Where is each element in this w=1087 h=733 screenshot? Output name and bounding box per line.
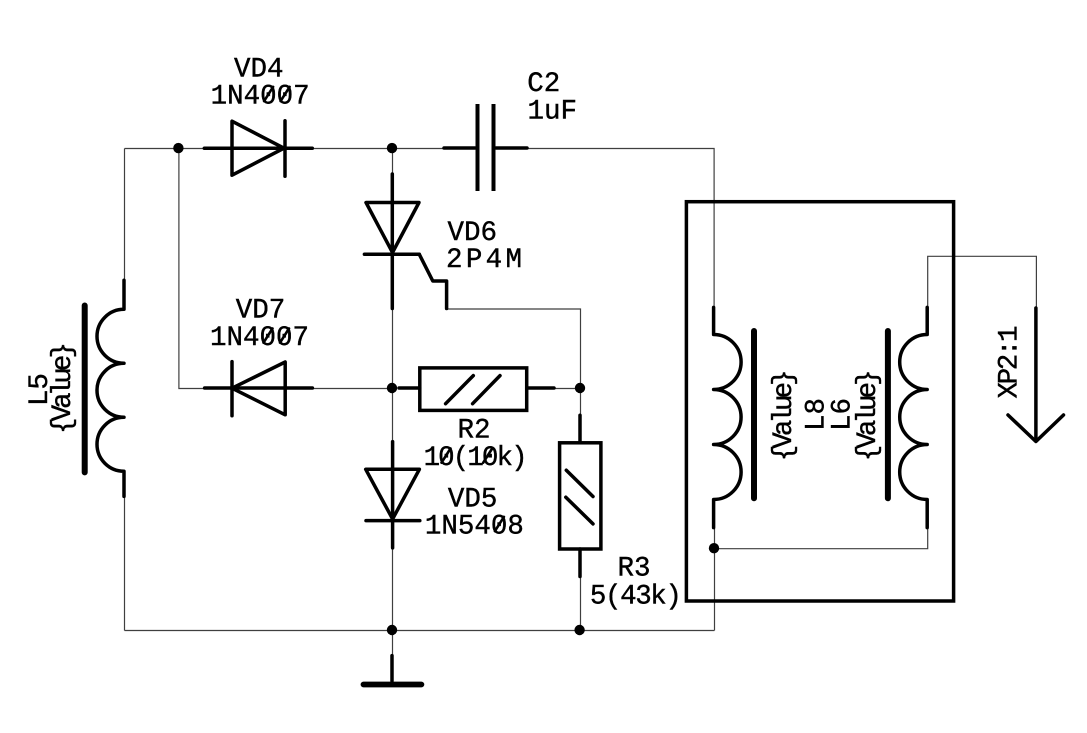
wire VD6 cathode to R2 row (392, 309, 394, 389)
transformer box (686, 202, 953, 601)
diode VD7 (205, 362, 313, 416)
ground (364, 656, 422, 685)
thyristor VD6 (364, 174, 446, 309)
wire R3 bottom to bus (580, 577, 582, 631)
slash zeros VD7 value (264, 329, 273, 343)
svg-text:1N4007: 1N4007 (211, 82, 310, 113)
diode VD5 (366, 442, 420, 548)
wire R2 right to node (555, 388, 581, 390)
resistor R2 (399, 368, 554, 411)
node C R2 left junction (387, 383, 397, 393)
resistor R3 (560, 415, 601, 576)
slash zeros VD4 value (264, 87, 273, 101)
diode VD4 (204, 121, 312, 177)
node F R3 bus junction (574, 625, 584, 635)
svg-text:{Value}: {Value} (769, 369, 800, 461)
capacitor C2 (444, 104, 527, 191)
wire transformer L8 top (713, 307, 715, 309)
inductor L8 (714, 307, 754, 527)
svg-text:1N5408: 1N5408 (425, 512, 524, 543)
svg-text:C2: C2 (527, 69, 560, 100)
wire left column L5 top (124, 149, 126, 281)
wire VD5 bottom to bus (392, 548, 394, 630)
svg-text:1N4007: 1N4007 (210, 323, 309, 354)
svg-text:VD7: VD7 (236, 296, 286, 327)
inductor L5 (85, 280, 124, 496)
slash zero VD5 value (495, 517, 504, 531)
wire top right to transformer (528, 149, 715, 308)
wire left column L5 bottom (124, 497, 126, 631)
node E ground bus junction (387, 625, 397, 635)
wire VD6 gate net (447, 309, 580, 389)
svg-text:{Value}: {Value} (48, 342, 79, 434)
wire R3 top (580, 389, 582, 416)
wire transformer L8 bottom to node (714, 528, 716, 549)
svg-text:{Value}: {Value} (853, 369, 884, 461)
wire L6 top to XP2 (928, 256, 1037, 308)
node A top-left junction (173, 143, 183, 153)
wire ground stub (392, 631, 394, 656)
node D R2 right junction (575, 383, 585, 393)
svg-text:R2: R2 (458, 416, 491, 447)
wire VD5 top (392, 389, 394, 443)
node G transformer centre junction (709, 543, 719, 553)
inductor L6 (888, 307, 927, 527)
wire bottom bus (125, 630, 715, 632)
wire VD7 right to R2 node (313, 388, 393, 390)
svg-text:1uF: 1uF (528, 96, 578, 127)
wire node1 down to VD7 (179, 149, 205, 389)
svg-text:R3: R3 (618, 553, 651, 584)
wire transformer node to L6 bottom (715, 528, 928, 549)
svg-text:5(43k): 5(43k) (590, 581, 682, 612)
connector XP2:1 (1008, 308, 1064, 442)
wire node2 down to VD6 (392, 149, 394, 175)
wire transformer node down to bus (714, 549, 716, 631)
wire top bus (125, 148, 445, 150)
slash zeros R2 value (442, 449, 451, 463)
node B top VD6 junction (387, 143, 397, 153)
svg-text:XP2:1: XP2:1 (995, 326, 1026, 399)
svg-text:10(10k): 10(10k) (424, 443, 528, 474)
